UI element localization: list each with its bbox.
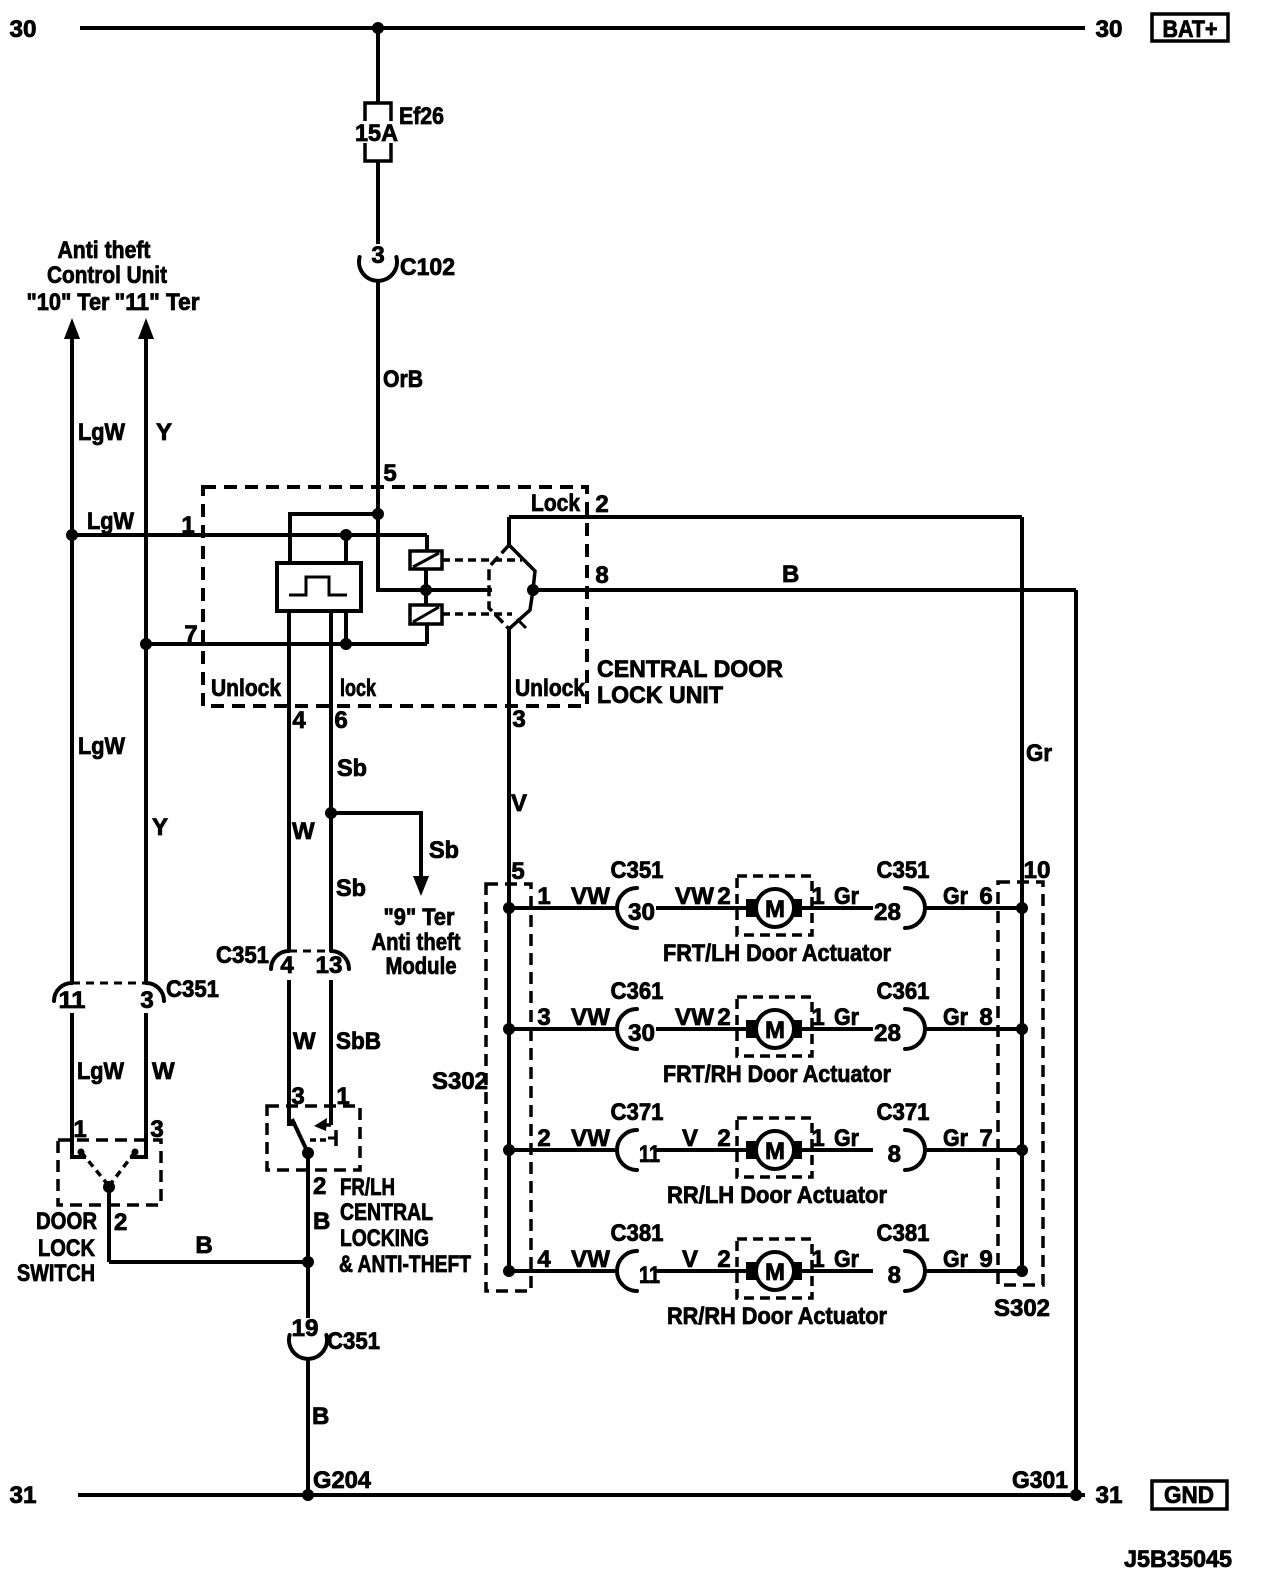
motor M4 symbol	[737, 1239, 812, 1298]
wire row 4 segment A	[509, 1269, 618, 1273]
motor M2 symbol	[737, 997, 812, 1056]
svg-text:W: W	[292, 818, 315, 845]
connector C371 right pin 8	[905, 1130, 925, 1170]
svg-text:Gr: Gr	[943, 1004, 968, 1031]
node S302 right row 3	[1016, 1144, 1028, 1156]
svg-text:Ef26: Ef26	[399, 103, 444, 130]
svg-text:5: 5	[383, 460, 396, 487]
svg-text:C371: C371	[611, 1099, 664, 1126]
svg-text:Gr: Gr	[943, 1246, 968, 1273]
svg-text:S302: S302	[994, 1295, 1050, 1322]
node S302 right row 1	[1016, 902, 1028, 914]
svg-text:C351: C351	[877, 857, 930, 884]
svg-text:2: 2	[313, 1173, 326, 1200]
node S302 left row 3	[503, 1144, 515, 1156]
svg-text:1: 1	[811, 1125, 824, 1152]
wire row 3 segment A	[509, 1148, 618, 1152]
svg-text:VW: VW	[571, 1004, 610, 1031]
svg-text:13: 13	[316, 952, 343, 979]
wire pin1 line	[72, 533, 427, 537]
svg-text:LOCK: LOCK	[38, 1235, 96, 1262]
node Y/pin7	[140, 638, 152, 650]
wire row 2 segment D	[925, 1027, 1022, 1031]
wire row 1 segment B	[656, 906, 746, 910]
svg-text:8: 8	[595, 562, 608, 589]
svg-text:3: 3	[512, 706, 525, 733]
svg-text:LgW: LgW	[87, 508, 134, 535]
svg-text:"9" Ter: "9" Ter	[384, 904, 455, 931]
svg-text:8: 8	[979, 1004, 992, 1031]
junction on rail 30	[372, 22, 384, 34]
svg-text:Unlock: Unlock	[515, 675, 586, 702]
wire 5-branch to switch housing	[378, 514, 492, 590]
svg-text:LOCKING: LOCKING	[340, 1225, 429, 1252]
svg-text:9: 9	[979, 1246, 992, 1273]
svg-text:M: M	[765, 896, 785, 923]
node S302 left row 4	[503, 1265, 515, 1277]
wire pin7 line	[146, 642, 427, 646]
svg-text:Gr: Gr	[834, 1125, 859, 1152]
svg-text:5: 5	[511, 858, 524, 885]
GND terminal box	[1152, 1481, 1227, 1509]
wire fuse to C102	[376, 161, 380, 244]
wire pin1 to relay K1	[425, 535, 429, 551]
svg-text:10: 10	[1024, 857, 1051, 884]
svg-text:& ANTI-THEFT: & ANTI-THEFT	[339, 1251, 471, 1278]
wire between relay coils	[424, 569, 428, 605]
svg-text:C361: C361	[877, 978, 930, 1005]
svg-text:30: 30	[628, 899, 655, 926]
splice S302 left dashed box	[486, 884, 531, 1291]
fuse Ef26 15A	[365, 103, 391, 121]
svg-text:FRT/LH Door Actuator: FRT/LH Door Actuator	[663, 940, 891, 967]
wire row 3 segment B	[656, 1148, 746, 1152]
svg-text:B: B	[313, 1208, 330, 1235]
svg-text:W: W	[152, 1058, 175, 1085]
wire Lock to right column	[509, 515, 1022, 519]
node S302 left row 2	[503, 1023, 515, 1035]
wire row 3 segment C	[802, 1148, 873, 1152]
svg-text:1: 1	[73, 1116, 86, 1143]
svg-text:8: 8	[888, 1141, 901, 1168]
svg-text:LgW: LgW	[77, 1058, 124, 1085]
svg-text:6: 6	[334, 707, 347, 734]
svg-text:7: 7	[979, 1125, 992, 1152]
ground G301	[1070, 1489, 1082, 1501]
svg-text:Anti theft: Anti theft	[372, 929, 461, 956]
motor M1 symbol	[737, 876, 812, 935]
svg-text:1: 1	[336, 1083, 349, 1110]
svg-text:C102: C102	[400, 254, 455, 281]
svg-text:M: M	[765, 1138, 785, 1165]
svg-text:28: 28	[874, 899, 901, 926]
svg-text:C351: C351	[166, 976, 219, 1003]
svg-text:4: 4	[537, 1246, 551, 1273]
svg-text:J5B35045: J5B35045	[1124, 1546, 1232, 1573]
svg-text:1: 1	[181, 512, 194, 539]
wire into door switch pin3	[130, 1013, 146, 1157]
svg-text:2: 2	[595, 491, 608, 518]
svg-text:2: 2	[717, 883, 730, 910]
svg-text:BAT+: BAT+	[1163, 16, 1218, 43]
dashed link K1 to switch	[442, 558, 522, 562]
svg-text:lock: lock	[340, 675, 376, 702]
wire row 1 segment C	[802, 906, 873, 910]
svg-text:RR/RH Door Actuator: RR/RH Door Actuator	[667, 1303, 887, 1330]
svg-text:LgW: LgW	[78, 419, 125, 446]
svg-text:3: 3	[537, 1004, 550, 1031]
svg-text:C361: C361	[611, 978, 664, 1005]
relay coil K1	[410, 551, 442, 569]
svg-text:1: 1	[811, 1004, 824, 1031]
FR/LH switch blade	[292, 1119, 308, 1153]
svg-text:28: 28	[874, 1020, 901, 1047]
svg-text:M: M	[765, 1259, 785, 1286]
BAT+ terminal box	[1152, 14, 1228, 41]
pulse generator U1	[277, 563, 361, 611]
svg-text:"11" Ter: "11" Ter	[115, 289, 200, 316]
svg-text:"10" Ter: "10" Ter	[27, 289, 110, 316]
svg-text:C381: C381	[877, 1220, 930, 1247]
wire stub to pulse box	[344, 535, 348, 563]
svg-text:G204: G204	[313, 1467, 372, 1494]
wire row 1 segment A	[509, 906, 618, 910]
svg-text:OrB: OrB	[383, 366, 423, 393]
connector C351 pin 19	[289, 1335, 327, 1359]
arrow to 11 Ter	[138, 318, 154, 339]
wire B horizontal	[109, 1260, 308, 1264]
svg-text:B: B	[195, 1232, 212, 1259]
svg-text:3: 3	[140, 987, 153, 1014]
svg-text:C351: C351	[216, 942, 269, 969]
svg-text:S302: S302	[432, 1068, 488, 1095]
svg-text:30: 30	[10, 16, 37, 43]
wire row 4 segment D	[925, 1269, 1022, 1273]
connector C361 left pin 30	[617, 1009, 637, 1049]
svg-text:SWITCH: SWITCH	[17, 1260, 95, 1287]
ground G204	[302, 1489, 314, 1501]
changeover switch blade (solid)	[509, 545, 535, 629]
svg-text:1: 1	[537, 883, 550, 910]
wire Lock contact	[507, 517, 511, 545]
svg-text:VW: VW	[571, 1125, 610, 1152]
svg-text:VW: VW	[675, 883, 714, 910]
svg-text:8: 8	[888, 1262, 901, 1289]
svg-text:V: V	[511, 790, 527, 817]
svg-text:Gr: Gr	[834, 1246, 859, 1273]
svg-text:2: 2	[717, 1246, 730, 1273]
svg-text:11: 11	[639, 1141, 660, 1168]
svg-text:Gr: Gr	[834, 1004, 859, 1031]
wire B down to C351 pin 19	[306, 1262, 310, 1318]
FR/LH contact arrow	[325, 1123, 331, 1127]
svg-text:Lock: Lock	[531, 490, 581, 517]
svg-text:Gr: Gr	[943, 1125, 968, 1152]
wire pulse bottom stub	[344, 611, 348, 644]
svg-text:2: 2	[717, 1125, 730, 1152]
svg-text:Y: Y	[152, 814, 168, 841]
wire V unlock pin3 down	[507, 629, 511, 1271]
svg-text:3: 3	[150, 1116, 163, 1143]
node 5-wire branch	[372, 508, 384, 520]
svg-text:FRT/RH Door Actuator: FRT/RH Door Actuator	[663, 1061, 891, 1088]
arrow to 10 Ter	[64, 318, 80, 339]
svg-text:Sb: Sb	[336, 875, 366, 902]
svg-text:11: 11	[59, 987, 86, 1014]
svg-text:3: 3	[371, 242, 384, 269]
svg-text:B: B	[782, 561, 799, 588]
door switch contacts	[78, 1149, 85, 1156]
svg-text:30: 30	[628, 1020, 655, 1047]
svg-text:GND: GND	[1164, 1482, 1214, 1509]
svg-text:4: 4	[292, 707, 306, 734]
wire pin7 to relay K2	[425, 624, 429, 644]
wire Y vertical	[144, 337, 148, 983]
node 30 battery rail (top)	[80, 26, 1085, 30]
svg-text:Sb: Sb	[429, 837, 459, 864]
node B junction	[302, 1256, 314, 1268]
central door lock unit dashed box	[203, 487, 587, 706]
wire row 2 segment A	[509, 1027, 618, 1031]
connector C351 pins 11 3 (left)	[72, 982, 146, 985]
node S302 left row 1	[503, 902, 515, 914]
svg-text:2: 2	[537, 1125, 550, 1152]
wire B pin8 to right	[533, 588, 1076, 592]
wire row 3 segment D	[925, 1148, 1022, 1152]
wire Gr lock column down	[1020, 517, 1024, 1271]
splice S302 right dashed box	[998, 882, 1043, 1285]
svg-text:2: 2	[114, 1209, 127, 1236]
svg-text:Sb: Sb	[337, 755, 367, 782]
connector C381 left pin 11	[617, 1251, 637, 1291]
svg-text:3: 3	[291, 1083, 304, 1110]
svg-text:7: 7	[184, 621, 197, 648]
svg-text:B: B	[312, 1403, 329, 1430]
FR/LH central locking switch dashed box	[267, 1106, 360, 1170]
svg-text:4: 4	[280, 952, 294, 979]
wire Sb branch to anti theft module arrow	[331, 813, 421, 877]
svg-text:2: 2	[717, 1004, 730, 1031]
svg-text:C351: C351	[327, 1328, 380, 1355]
node door switch pivot pin 2	[103, 1181, 115, 1193]
wire W pin4 down	[287, 611, 291, 951]
node 31 ground rail (bottom)	[78, 1493, 1085, 1497]
svg-text:RR/LH Door Actuator: RR/LH Door Actuator	[667, 1182, 887, 1209]
svg-text:Anti theft: Anti theft	[58, 237, 151, 264]
svg-text:11: 11	[639, 1262, 660, 1289]
svg-text:15A: 15A	[355, 120, 398, 147]
wire row 4 segment C	[802, 1269, 873, 1273]
svg-text:VW: VW	[571, 883, 610, 910]
svg-text:C371: C371	[877, 1099, 930, 1126]
svg-text:V: V	[682, 1246, 698, 1273]
wire branch to pulse box top	[290, 514, 378, 563]
svg-text:1: 1	[811, 883, 824, 910]
connector C351 left pin 30	[617, 888, 637, 928]
connector C102 pin 3	[359, 257, 397, 281]
svg-text:19: 19	[292, 1315, 319, 1342]
connector C351 right pin 28	[905, 888, 925, 928]
svg-text:V: V	[682, 1125, 698, 1152]
svg-text:SbB: SbB	[336, 1028, 381, 1055]
wire LgW vertical	[70, 337, 74, 983]
node S302 right row 2	[1016, 1023, 1028, 1035]
wire row 1 segment D	[925, 906, 1022, 910]
svg-text:VW: VW	[571, 1246, 610, 1273]
svg-text:Gr: Gr	[1026, 740, 1052, 767]
svg-text:CENTRAL DOOR: CENTRAL DOOR	[597, 656, 783, 683]
wire B to ground G204	[306, 1359, 310, 1495]
svg-text:VW: VW	[675, 1004, 714, 1031]
wire OrB C102 to central unit pin 5	[376, 281, 380, 514]
svg-text:FR/LH: FR/LH	[340, 1174, 395, 1201]
wire SbB below C351	[329, 980, 333, 1125]
node Sb branch	[325, 807, 337, 819]
wire row 4 segment B	[656, 1269, 746, 1273]
FR/LH mech link	[310, 1138, 327, 1142]
motor M3 symbol	[737, 1118, 812, 1177]
svg-text:6: 6	[979, 883, 992, 910]
node FR/LH pivot	[302, 1147, 314, 1159]
svg-text:31: 31	[10, 1482, 37, 1509]
svg-text:Y: Y	[156, 419, 172, 446]
svg-text:Unlock: Unlock	[211, 675, 282, 702]
svg-text:Module: Module	[386, 953, 457, 980]
node pin7/pulse stub	[340, 638, 352, 650]
svg-text:Control Unit: Control Unit	[47, 262, 167, 289]
wire W below C351	[289, 980, 296, 1124]
node pin1/pulse	[340, 529, 352, 541]
svg-text:CENTRAL: CENTRAL	[340, 1199, 433, 1226]
svg-text:LOCK UNIT: LOCK UNIT	[597, 682, 723, 709]
door lock switch dashed box	[58, 1140, 161, 1205]
connector C351 pins 4 13	[289, 950, 331, 953]
node LgW/pin1	[66, 529, 78, 541]
wire rail to fuse	[376, 28, 380, 103]
connector C381 right pin 8	[905, 1251, 925, 1291]
wire Sb pin6 down	[329, 611, 333, 951]
svg-text:C381: C381	[611, 1220, 664, 1247]
connector C371 left pin 11	[617, 1130, 637, 1170]
svg-text:W: W	[293, 1028, 316, 1055]
svg-text:Gr: Gr	[943, 883, 968, 910]
wire FR/LH pin2 down	[306, 1153, 310, 1262]
svg-text:1: 1	[811, 1246, 824, 1273]
door switch blades dashed	[81, 1152, 109, 1186]
wire row 2 segment B	[656, 1027, 746, 1031]
wire pin2 down	[107, 1187, 111, 1262]
node switch pivot pin 8	[527, 584, 539, 596]
svg-text:31: 31	[1096, 1482, 1123, 1509]
wire into door switch pin1	[72, 1013, 86, 1157]
svg-text:G301: G301	[1012, 1467, 1068, 1494]
dashed link K2 to switch	[442, 612, 512, 616]
connector C361 right pin 28	[905, 1009, 925, 1049]
svg-text:M: M	[765, 1017, 785, 1044]
svg-text:LgW: LgW	[78, 733, 125, 760]
node relay mid	[420, 584, 432, 596]
svg-text:30: 30	[1096, 16, 1123, 43]
svg-text:DOOR: DOOR	[36, 1208, 97, 1235]
wire row 2 segment C	[802, 1027, 873, 1031]
svg-text:C351: C351	[611, 857, 664, 884]
node S302 right row 4	[1016, 1265, 1028, 1277]
wire B right column down	[1074, 590, 1078, 1495]
changeover switch housing (dashed)	[489, 545, 509, 629]
svg-text:Gr: Gr	[834, 883, 859, 910]
relay coil K2	[410, 605, 442, 624]
